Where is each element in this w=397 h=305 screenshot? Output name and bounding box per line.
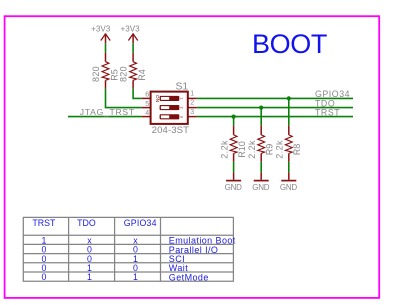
svg-text:820: 820 (118, 66, 128, 82)
svg-text:3: 3 (190, 109, 194, 116)
svg-text:+3V3: +3V3 (91, 25, 111, 34)
svg-text:ON: ON (154, 95, 160, 103)
svg-text:4: 4 (145, 110, 149, 117)
svg-text:GetMode: GetMode (169, 272, 209, 282)
svg-text:GND: GND (225, 183, 243, 192)
svg-text:3: 3 (179, 116, 183, 118)
svg-text:TRST: TRST (32, 218, 56, 228)
svg-text:R10: R10 (237, 141, 247, 158)
svg-text:+3V3: +3V3 (121, 25, 141, 34)
svg-text:R9: R9 (265, 144, 275, 156)
svg-text:6: 6 (145, 92, 149, 99)
svg-text:2.2k: 2.2k (219, 140, 229, 159)
svg-text:1: 1 (87, 272, 92, 282)
svg-text:5: 5 (145, 101, 149, 108)
svg-text:S1: S1 (176, 82, 189, 93)
svg-text:204-3ST: 204-3ST (152, 125, 190, 136)
svg-text:2: 2 (190, 100, 194, 107)
svg-text:TDO: TDO (77, 218, 96, 228)
svg-text:2.2k: 2.2k (275, 140, 285, 159)
svg-text:2: 2 (179, 107, 183, 109)
svg-text:TRST: TRST (315, 108, 340, 118)
svg-text:GND: GND (252, 183, 270, 192)
svg-text:1: 1 (133, 272, 138, 282)
svg-text:GND: GND (280, 183, 298, 192)
svg-text:GPIO34: GPIO34 (124, 218, 157, 228)
svg-text:JTAG_TRST: JTAG_TRST (80, 107, 135, 117)
svg-text:1: 1 (190, 90, 194, 97)
svg-text:0: 0 (41, 272, 46, 282)
svg-text:1: 1 (179, 97, 183, 99)
svg-text:R4: R4 (137, 69, 147, 81)
svg-text:820: 820 (91, 66, 101, 82)
svg-text:BOOT: BOOT (252, 29, 327, 59)
svg-text:2.2k: 2.2k (247, 140, 257, 159)
svg-text:R8: R8 (292, 144, 302, 156)
